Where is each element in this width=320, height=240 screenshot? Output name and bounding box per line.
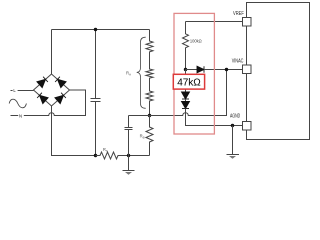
wire diode chain to AGND [186,109,243,126]
wire between diodes [185,99,187,102]
diode D_UL [37,77,48,88]
diode D1 [182,92,190,99]
wire VINAC line [186,69,198,71]
ground GND2 AGND [227,126,240,159]
AC source sine [9,99,26,108]
capacitor C_bulk [91,30,101,156]
diode D_LL [37,93,48,104]
resistor R_S shunt [96,152,129,159]
wire neutral N input with hop over bridge return [11,90,86,116]
resistor R_A [146,30,153,116]
pin VREF square [243,18,252,27]
svg-text:RB: RB [140,134,145,140]
pin VINAC square [243,65,252,74]
ground GND1 [123,156,135,175]
red label box 47k [173,74,204,89]
wire diode chain [185,70,187,93]
diode D3 series [197,66,204,73]
node dot bottom rail / C_bulk [94,154,97,157]
wire top rail [52,29,150,31]
diode D_UR [55,77,66,88]
wire line L input [11,90,34,92]
resistor R1 100k [183,22,189,70]
diode D_LR [55,93,66,104]
capacitor C_filter [125,116,133,156]
resistor R_B [146,116,153,156]
node dot top rail / C_bulk [94,28,97,31]
label N terminal [18,113,24,118]
svg-text:47kΩ: 47kΩ [177,78,201,89]
node dot AGND / ground [231,124,234,127]
svg-text:RA: RA [126,71,131,77]
svg-text:AGND: AGND [230,114,240,120]
wire diode to VINAC pin [204,69,243,71]
IC U1 body outline [247,3,310,140]
wire bridge positive output [51,30,53,75]
wire bridge negative output [52,106,96,156]
node dot R1 / diodes [184,68,187,71]
svg-text:100kΩ: 100kΩ [190,39,202,44]
svg-text:VINAC: VINAC [232,59,244,65]
red highlight box clamp network [174,13,214,134]
label L terminal [13,88,18,93]
bridge rectifier BR1 [34,74,70,106]
diode D2 [182,102,190,109]
brace for R_A [137,37,146,108]
wire node line with hop over diode chain [129,70,227,116]
svg-text:RS: RS [103,147,108,153]
node dot VINAC / divider [225,68,228,71]
wire bottom rail to RB [129,155,150,157]
node A dot divider [148,114,151,117]
wire VREF to R1 [186,21,243,23]
svg-text:N: N [19,113,22,118]
node dot rail / ground / C filter [127,154,130,157]
svg-text:VREF: VREF [233,11,244,17]
pin AGND square [243,122,252,131]
